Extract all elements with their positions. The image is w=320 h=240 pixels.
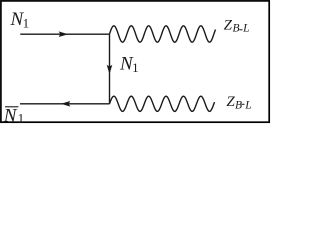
wire: t-channel N1 propagator (vertical)	[109, 34, 111, 104]
svg-text:1: 1	[18, 111, 25, 126]
svg-text:N: N	[3, 106, 18, 127]
svg-text:1: 1	[23, 16, 30, 31]
wire: incoming fermion line N1 (top left)	[20, 33, 109, 35]
svg-text:B: B	[233, 23, 240, 35]
svg-text:Z: Z	[224, 17, 233, 33]
wire: incoming antifermion line N1bar (bottom left)	[20, 103, 110, 105]
svg-text:L: L	[244, 99, 251, 111]
arrow on vertical propagator (pointing down)	[107, 65, 113, 75]
border frame	[1, 1, 269, 122]
boson wavy line Z_B-L (bottom right)	[110, 96, 215, 111]
svg-text:1: 1	[132, 60, 139, 75]
label N1bar (bottom left)	[5, 106, 18, 108]
arrow on bottom fermion line (pointing left)	[61, 101, 71, 107]
arrow on top fermion line (pointing right)	[59, 31, 69, 37]
svg-text:L: L	[242, 23, 249, 35]
boson wavy line Z_B-L (top right)	[110, 26, 216, 42]
svg-text:B: B	[235, 99, 242, 111]
